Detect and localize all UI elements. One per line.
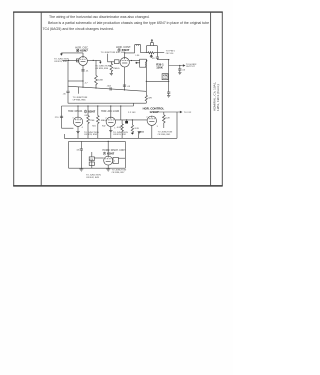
junction dot xyxy=(108,141,109,142)
junction dots on return bus xyxy=(82,87,83,88)
svg-text:OF R40, R41: OF R40, R41 xyxy=(158,134,172,136)
label TO JUNCTION R35 R36 xyxy=(73,97,88,101)
resistor R42 vertical xyxy=(97,105,107,138)
wire horizontal return bus xyxy=(68,86,146,91)
ground mark under R44 xyxy=(138,132,141,134)
wire riser line B to coupling link xyxy=(120,106,122,120)
tube V9B horizontal control triode xyxy=(120,58,129,67)
wire bus line A xyxy=(68,102,146,104)
wire grid V9A left xyxy=(62,59,78,61)
wire stage box corner right of R44 xyxy=(139,132,145,138)
wire cross link y81 left xyxy=(68,80,83,82)
wire V10A cathode down to rail xyxy=(77,126,79,138)
svg-text:OF R33, R34: OF R33, R34 xyxy=(84,134,98,136)
resistor R32 vertical xyxy=(95,60,104,88)
svg-text:4: 4 xyxy=(82,127,83,129)
junction dot xyxy=(124,52,125,53)
junction dot plate feed corner xyxy=(168,59,169,60)
label HOR. CONTROL bold block V11 xyxy=(143,107,165,114)
wire bus line B xyxy=(62,105,134,107)
svg-text:120K: 120K xyxy=(98,80,104,82)
paragraph text xyxy=(43,15,210,31)
wire rail left rise xyxy=(63,134,65,138)
wire bottom-left to V10A grid xyxy=(62,127,74,129)
svg-text:TO JUNCTION R32, R33: TO JUNCTION R32, R33 xyxy=(101,52,126,54)
wire V9B grid feed vertical xyxy=(108,54,115,62)
resistor R47 box xyxy=(89,162,94,165)
capacitor C31 on left column xyxy=(63,91,70,95)
svg-text:OF R36, R37: OF R36, R37 xyxy=(112,172,126,174)
svg-text:47K: 47K xyxy=(148,98,152,100)
wire cathode V9A down xyxy=(82,65,84,87)
ground under C39 drop xyxy=(79,168,83,171)
wire ground rail y138.3 xyxy=(64,137,177,139)
tube V10B AFC triode xyxy=(106,117,115,126)
resistor R44 vertical with ground triangle xyxy=(131,120,140,135)
capacitor C35 on return bus xyxy=(107,85,112,90)
wire cross link y81.3 right xyxy=(146,80,168,82)
resistor R48 box right of V12A xyxy=(113,158,126,164)
svg-text:TO V12: TO V12 xyxy=(184,112,192,114)
resistor R40 box right column xyxy=(162,74,168,81)
wire top-left arrow feed xyxy=(61,53,83,55)
tube V11 horizontal control xyxy=(147,116,156,125)
junction dot xyxy=(77,105,78,106)
ground under V12A xyxy=(106,168,110,171)
ground under right column xyxy=(167,95,170,97)
wiper arrow under R35 xyxy=(150,55,152,57)
wire V10B plate up to bus xyxy=(110,106,112,117)
resistor R45 vertical right of V11 xyxy=(163,112,171,128)
svg-text:19B1, 19C1 (Cont.): 19B1, 19C1 (Cont.) xyxy=(216,84,220,111)
junction dot xyxy=(179,65,180,66)
wire plate V9A up xyxy=(82,53,84,57)
capacitor C32 on cathode line xyxy=(81,70,89,73)
wire V12A cathode down with ground xyxy=(107,165,109,168)
svg-text:Ⓜ 6SN7: Ⓜ 6SN7 xyxy=(76,48,88,53)
wire plate V9B right to T4 xyxy=(129,60,139,62)
grid box left of V9B xyxy=(114,60,119,64)
ground mark under V10B xyxy=(109,130,112,132)
label TO JUNCTION OF R31 R32 xyxy=(54,58,69,62)
svg-text:OUTPUT: OUTPUT xyxy=(186,66,196,68)
wire plate V9A right xyxy=(87,59,100,61)
pin digit labels middle row xyxy=(73,115,158,129)
wire discharge loop bottom rail xyxy=(69,167,126,169)
svg-text:1 MEG: 1 MEG xyxy=(99,120,106,122)
svg-text:HOR. AFC L31M: HOR. AFC L31M xyxy=(101,110,119,113)
svg-text:470K: 470K xyxy=(89,120,95,122)
wire grid coupling link y119.9 xyxy=(116,119,148,121)
svg-text:OF R31, R32: OF R31, R32 xyxy=(113,134,127,136)
resistor R33 vertical with ground xyxy=(110,62,120,74)
wire V12A grid left xyxy=(94,157,103,159)
wire T4 bottom down xyxy=(145,67,147,95)
svg-text:OF R35, R36: OF R35, R36 xyxy=(73,99,87,101)
svg-text:The wiring of the horizontal o: The wiring of the horizontal osc discrim… xyxy=(49,15,150,19)
wire AFC bus left drop xyxy=(61,106,63,128)
resistor R41 vertical xyxy=(87,105,95,138)
wire discharge loop top y141.4 xyxy=(69,140,126,142)
svg-text:C40: C40 xyxy=(84,115,87,117)
wire V12A plate up xyxy=(107,141,109,156)
wire stub to label xyxy=(78,87,80,94)
capacitor C34 below pot loop xyxy=(152,57,159,60)
svg-text:3: 3 xyxy=(157,126,158,128)
wire V10A plate up to bus xyxy=(77,106,79,117)
wire V11 cathode down to rail xyxy=(151,125,153,138)
junction dot xyxy=(110,105,111,106)
ground under C36 xyxy=(178,73,181,75)
right margin rotated caption xyxy=(213,82,220,111)
tube V12A discharge triode xyxy=(104,156,113,165)
wire V11 plate right with arrow xyxy=(157,111,182,113)
label TO JUNCTION OF R36 R37 xyxy=(112,170,127,174)
svg-text:2: 2 xyxy=(146,116,147,118)
svg-text:8.2K: 8.2K xyxy=(135,128,140,130)
capacitor C36 with ground xyxy=(178,66,186,73)
svg-text:1 MEG: 1 MEG xyxy=(113,68,120,70)
wire arrow down to junction R33 R34 xyxy=(100,60,101,63)
svg-text:7C4 (6AG5) and the circuit cha: 7C4 (6AG5) and the circuit changes invol… xyxy=(43,27,114,31)
grid cap small box left of V9A xyxy=(76,59,78,62)
ground under R33 xyxy=(110,73,113,75)
wire right section: plate feed xyxy=(157,53,184,67)
label TO JUNCTION bottom left xyxy=(86,174,101,178)
page border frame xyxy=(13,12,222,186)
svg-text:HOR. DISCR.: HOR. DISCR. xyxy=(68,110,83,113)
wire V10B cathode down xyxy=(110,127,112,139)
svg-text:2: 2 xyxy=(105,118,106,120)
SCHEMATIC xyxy=(54,40,197,179)
wire discharge loop right side xyxy=(124,141,126,168)
svg-text:8.2K: 8.2K xyxy=(165,118,170,120)
resistor R46 box xyxy=(89,152,94,168)
svg-text:47K: 47K xyxy=(163,75,168,78)
svg-text:6.8K: 6.8K xyxy=(117,127,122,129)
svg-text:47K: 47K xyxy=(89,159,93,161)
svg-text:5: 5 xyxy=(73,118,74,120)
svg-text:Ⓟ 6SN7: Ⓟ 6SN7 xyxy=(103,150,115,155)
hor freq pot loop with trimmer on top xyxy=(146,40,157,53)
svg-text:OF R42, R43: OF R42, R43 xyxy=(86,177,100,179)
wire inner drop with capacitor C39 xyxy=(76,141,83,168)
wire left column down xyxy=(67,60,69,103)
junction dot xyxy=(111,61,112,62)
svg-text:150K: 150K xyxy=(156,66,163,70)
capacitor C37 on left drop xyxy=(55,116,63,119)
svg-text:Below is a partial schematic o: Below is a partial schematic of late pro… xyxy=(48,21,209,25)
label TO JUNCTION R33 R34 xyxy=(95,66,110,70)
wire discharge loop left side xyxy=(68,141,70,168)
svg-text:1: 1 xyxy=(114,127,115,129)
capacitor C38 dark on coupling link xyxy=(125,120,128,124)
resistor R38 small on T4 drop xyxy=(145,95,152,103)
wire right column down with cap and ground xyxy=(167,66,170,96)
label TO HORIZ OUTPUT xyxy=(186,64,197,68)
trimmer capacitor top xyxy=(151,43,154,46)
svg-text:R41: R41 xyxy=(92,125,95,127)
wire arrow into T4 xyxy=(135,62,139,63)
wire plate V9B up and right xyxy=(125,53,135,58)
inductor L30 hor osc coil xyxy=(135,44,141,57)
resistor R43 vertical xyxy=(117,120,123,138)
labels TO JUNCTION under middle row xyxy=(84,132,128,136)
svg-text:Ⓝ 6SN7: Ⓝ 6SN7 xyxy=(118,47,130,52)
ground mark on rail under V10A xyxy=(76,132,79,134)
potentiometer R35 hor freq in loop bottom xyxy=(141,52,158,54)
svg-text:R42: R42 xyxy=(102,125,105,127)
wire V9B cathode down xyxy=(124,67,126,90)
svg-text:Ⓞ 6SN7: Ⓞ 6SN7 xyxy=(84,109,96,114)
tube V10A discriminator triode xyxy=(73,117,82,126)
discriminator transformer T4 box xyxy=(140,59,147,67)
wire stub right of pot loop xyxy=(157,52,164,54)
bold label R39 block xyxy=(156,63,164,70)
svg-text:OF R31, R32: OF R31, R32 xyxy=(54,61,68,63)
svg-text:2.2 103: 2.2 103 xyxy=(128,112,136,114)
label TO TUBE V14 xyxy=(166,51,176,55)
junction dot xyxy=(93,60,94,61)
svg-text:OF V14: OF V14 xyxy=(166,53,174,55)
wire elbow at line B right end xyxy=(133,103,135,106)
wire right frame of control stage xyxy=(176,112,178,138)
svg-text:OF R33, R34: OF R33, R34 xyxy=(95,68,109,70)
capacitor C33 on cathode drop xyxy=(123,85,131,88)
tube V9A horizontal oscillator triode xyxy=(79,57,88,66)
label TO JUNCTION right stage xyxy=(158,131,173,135)
